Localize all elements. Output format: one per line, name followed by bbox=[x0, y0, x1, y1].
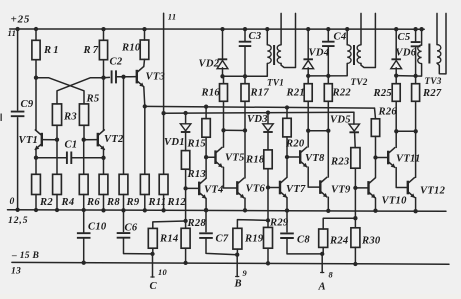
wire VT5 base lead bbox=[206, 156, 215, 158]
junction R15/VT4 collector/VT5 base bbox=[204, 155, 208, 159]
wire R7 bottom bbox=[103, 60, 105, 78]
svg-text:R13: R13 bbox=[187, 169, 207, 180]
wire C3 top bbox=[244, 29, 246, 41]
svg-text:R26: R26 bbox=[378, 107, 398, 118]
svg-text:A: A bbox=[318, 282, 326, 293]
svg-text:C6: C6 bbox=[125, 223, 138, 234]
svg-text:– 15 В: – 15 В bbox=[11, 250, 39, 261]
wire R7 top bbox=[103, 29, 105, 40]
junction VT6 emitter/rail0 bbox=[243, 208, 247, 212]
wire VT12 collector up bbox=[415, 131, 417, 177]
wire R22 top bbox=[327, 76, 329, 84]
wire R4 bottom bbox=[56, 195, 58, 211]
svg-text:11: 11 bbox=[8, 28, 17, 38]
wire R1 top bbox=[35, 29, 37, 40]
svg-text:C10: C10 bbox=[88, 222, 107, 233]
svg-text:R7: R7 bbox=[83, 45, 101, 56]
wire VT9 collector up bbox=[327, 131, 329, 177]
resistor R8 bbox=[99, 174, 108, 194]
junction VT2 emitter/R8 bbox=[101, 156, 105, 160]
resistor R26 bbox=[371, 119, 379, 137]
junction R25/VT11 collector bbox=[394, 129, 398, 133]
svg-text:R9: R9 bbox=[126, 197, 140, 208]
svg-text:R18: R18 bbox=[245, 154, 265, 165]
junction VT10 emitter/rail0 bbox=[373, 209, 377, 213]
svg-text:R12: R12 bbox=[167, 197, 187, 208]
svg-text:C2: C2 bbox=[110, 57, 123, 68]
core TV1 bbox=[273, 45, 275, 65]
junction C9/rail0 bbox=[15, 208, 19, 212]
resistor R28 bbox=[181, 228, 190, 248]
wire R23 to VT10 base bbox=[354, 168, 356, 188]
svg-text:C9: C9 bbox=[21, 99, 34, 110]
junction R27/VT12 collector bbox=[414, 129, 418, 133]
junction VD4/primary bus bbox=[306, 74, 310, 78]
wire VT8 emitter to VT9 base bbox=[308, 167, 320, 187]
wire R10 bottom to VT3 collector bbox=[143, 59, 146, 66]
svg-text:R30: R30 bbox=[361, 236, 381, 247]
capacitor C2 bbox=[112, 70, 116, 83]
wire R29 bottom bbox=[267, 248, 269, 263]
svg-text:13: 13 bbox=[11, 266, 21, 277]
resistor R21 bbox=[304, 84, 312, 102]
wire VT9 emitter down bbox=[327, 197, 329, 211]
wire R16 bottom bbox=[223, 101, 225, 130]
node VT4 base bbox=[183, 186, 187, 190]
wire VT4 collector up bbox=[205, 157, 207, 178]
svg-text:+25: +25 bbox=[11, 14, 31, 26]
junction VD4/rail+25 bbox=[306, 27, 310, 31]
wire VD1 top bbox=[185, 113, 187, 124]
transistor VT4 bbox=[198, 182, 200, 196]
junction R15/upper bus bbox=[204, 104, 208, 108]
junction R30/R24 link bbox=[353, 216, 357, 220]
wire C6 to terminal C node bbox=[124, 238, 153, 254]
wire VT2 base lead bbox=[84, 139, 98, 141]
wire R22 bottom bbox=[327, 101, 329, 130]
junction C3/primary bus bbox=[243, 74, 247, 78]
svg-text:R16: R16 bbox=[201, 88, 221, 99]
wire VT7 base down to R29 bbox=[267, 188, 269, 221]
svg-text:R5: R5 bbox=[86, 93, 100, 104]
junction VD6/primary bus ch3 bbox=[394, 73, 398, 77]
wire VT5 emitter to VT6 base bbox=[224, 167, 238, 188]
terminal B tick bbox=[235, 276, 239, 278]
junction net11-stub/lower-bus/R12 bbox=[161, 111, 165, 115]
inductor TV3 primary winding bbox=[418, 45, 422, 64]
wire R12 bottom bbox=[163, 195, 165, 211]
node VT7 base bbox=[266, 185, 270, 189]
svg-text:R1: R1 bbox=[43, 45, 61, 56]
svg-text:C7: C7 bbox=[216, 234, 229, 245]
svg-text:VD6: VD6 bbox=[396, 48, 417, 59]
junction VT7 emitter-C8/rail0 bbox=[285, 208, 289, 212]
svg-text:R24: R24 bbox=[329, 236, 348, 247]
junction R4/rail0 bbox=[55, 208, 59, 212]
diode VD1 bbox=[180, 124, 191, 131]
svg-text:VT8: VT8 bbox=[305, 153, 325, 164]
svg-text:R4: R4 bbox=[61, 197, 75, 208]
wire VT8 base lead bbox=[287, 156, 300, 158]
wire R25 bottom bbox=[395, 101, 397, 131]
svg-text:VT4: VT4 bbox=[204, 185, 224, 196]
transistor VT5 bbox=[214, 150, 216, 164]
inductor TV2 primary winding bbox=[347, 45, 351, 64]
wire lower mid bus bbox=[164, 111, 354, 114]
wire C6 top bbox=[123, 210, 125, 231]
junction VD2/primary bus bbox=[220, 74, 224, 78]
resistor R20 bbox=[283, 118, 291, 137]
wire collector link ch3 bbox=[396, 130, 415, 132]
wire R17 top bbox=[244, 76, 246, 83]
resistor R3 bbox=[52, 104, 61, 125]
wire VT6 collector up bbox=[244, 130, 246, 178]
wire R10 top bbox=[144, 29, 146, 40]
wire VT10 collector up bbox=[375, 158, 377, 178]
svg-text:B: B bbox=[234, 279, 242, 290]
svg-text:VT3: VT3 bbox=[146, 72, 166, 83]
core TV3 bbox=[428, 44, 430, 64]
inductor TV2 secondary winding bbox=[357, 45, 361, 64]
svg-text:R20: R20 bbox=[285, 139, 305, 150]
wire R5 bottom to VT2 base bbox=[83, 125, 85, 139]
junction VT3 emitter/upper bus/R11 bbox=[143, 104, 147, 108]
junction R28/R14 link bbox=[183, 219, 187, 223]
wire R21 top bbox=[307, 76, 309, 84]
wire C7 to terminal B node bbox=[206, 238, 237, 255]
junction R20/upper bus bbox=[285, 105, 289, 109]
wire R15 to VT5 base bbox=[205, 137, 207, 157]
transistor VT12 bbox=[407, 181, 409, 195]
wire C2 to VT3 base bbox=[116, 76, 130, 78]
capacitor C1 bbox=[67, 152, 71, 165]
junction R14/C6/terminal C bbox=[150, 252, 154, 256]
wire R14 bottom bbox=[152, 248, 154, 254]
wire R28 bottom bbox=[185, 248, 187, 263]
resistor R12 bbox=[159, 174, 168, 194]
resistor R16 bbox=[220, 84, 228, 102]
wire upper mid bus bbox=[145, 106, 375, 108]
junction VD1/lower bus bbox=[183, 111, 187, 115]
svg-text:R19: R19 bbox=[244, 234, 264, 245]
junction R8/rail0 bbox=[101, 208, 105, 212]
svg-text:TV3: TV3 bbox=[425, 76, 442, 86]
inductor TV1 secondary winding bbox=[277, 45, 281, 64]
svg-text:VT9: VT9 bbox=[331, 185, 351, 196]
wire TV1 secondary bottom lead bbox=[281, 13, 295, 67]
wire R26 to VT11 base bbox=[375, 136, 377, 157]
diode VD6 bbox=[391, 58, 401, 60]
wire VT3 emitter to upper bus bbox=[144, 87, 145, 107]
resistor R25 bbox=[392, 84, 400, 102]
wire R20 top bbox=[286, 108, 288, 119]
node VT10 base bbox=[353, 186, 357, 190]
wire TV3 secondary bottom lead bbox=[437, 13, 446, 74]
wire TV3 primary top lead bbox=[421, 29, 423, 45]
scan artifact left edge bbox=[0, 114, 2, 122]
junction R16/VT5 collector bbox=[221, 128, 225, 132]
wire R18 to VT7 base bbox=[267, 169, 269, 188]
resistor R18 bbox=[264, 150, 272, 169]
wire R6 bottom bbox=[83, 195, 85, 211]
wire collector link ch2 bbox=[308, 130, 328, 132]
wire cross VT1-collector to R5 bbox=[36, 78, 84, 104]
svg-text:VT12: VT12 bbox=[420, 186, 446, 197]
wire emitter line left bbox=[36, 157, 67, 159]
resistor R5 bbox=[79, 104, 88, 125]
junction R20/VT7 collector/VT8 base bbox=[285, 155, 289, 159]
wire R20 to VT8 base bbox=[286, 137, 288, 157]
wire VD2 bottom bbox=[222, 68, 224, 77]
transistor VT10 bbox=[367, 181, 369, 195]
junction R28/rail-15 bbox=[183, 261, 187, 265]
inductor TV1 primary winding bbox=[267, 45, 271, 64]
wire VD1 to R13 bbox=[185, 132, 187, 150]
junction C4/primary bus bbox=[326, 74, 330, 78]
svg-text:C5: C5 bbox=[398, 32, 411, 43]
wire R30 bottom bbox=[354, 247, 356, 264]
junction VT4 emitter/rail0 bbox=[204, 208, 208, 212]
wire VT4 emitter down bbox=[205, 199, 207, 211]
wire R19 bottom bbox=[236, 249, 238, 255]
svg-text:R10: R10 bbox=[121, 43, 141, 54]
svg-text:8: 8 bbox=[329, 271, 334, 280]
node VT1 collector bbox=[34, 76, 38, 80]
junction C3/rail+25 bbox=[243, 27, 247, 31]
wire C5 top bbox=[415, 29, 417, 42]
wire VD3 to R18 bbox=[267, 132, 269, 150]
wire R1 bottom bbox=[35, 60, 37, 78]
resistor R19 bbox=[233, 228, 242, 249]
wire VD6 top bbox=[395, 29, 397, 59]
svg-text:C1: C1 bbox=[65, 139, 78, 150]
svg-text:R23: R23 bbox=[330, 157, 350, 168]
transistor VT3 bbox=[136, 70, 138, 84]
transistor VT9 bbox=[319, 180, 321, 194]
junction VT1 emitter/R2 bbox=[34, 156, 38, 160]
junction VD6/rail+25 bbox=[394, 27, 398, 31]
junction R29/rail-15 bbox=[266, 261, 270, 265]
junction VT9 emitter/rail0 bbox=[326, 209, 330, 213]
transistor VT2 bbox=[97, 133, 99, 147]
junction VT2 base/R5/R6 bbox=[82, 138, 86, 142]
wire VT7 emitter down bbox=[286, 198, 288, 211]
wire C7 top bbox=[205, 210, 207, 231]
junction C9/rail+25 bbox=[15, 27, 19, 31]
svg-text:12,5: 12,5 bbox=[8, 215, 28, 226]
svg-text:R8: R8 bbox=[106, 197, 120, 208]
junction R24/C8/terminal A bbox=[320, 252, 324, 256]
svg-text:VT2: VT2 bbox=[104, 134, 124, 145]
wire R2 top bbox=[35, 158, 37, 175]
wire TV3 secondary top lead bbox=[436, 13, 438, 44]
wire terminal C stub bbox=[152, 254, 154, 277]
svg-text:R21: R21 bbox=[286, 88, 305, 99]
wire C9 bottom bbox=[17, 118, 19, 210]
wire R17 bottom bbox=[244, 101, 246, 130]
wire VD5 to R23 bbox=[354, 133, 357, 148]
resistor R10 bbox=[140, 40, 149, 59]
svg-text:R15: R15 bbox=[187, 139, 207, 150]
wire VT3 base lead bbox=[130, 76, 137, 78]
resistor R2 bbox=[32, 174, 41, 194]
wire TV2 secondary top lead bbox=[360, 13, 362, 44]
wire VT4 base down to R28 bbox=[185, 188, 187, 221]
resistor R4 bbox=[53, 174, 62, 194]
wire VT1 base lead bbox=[42, 139, 57, 141]
node VT2 collector bbox=[101, 76, 105, 80]
resistor R7 bbox=[99, 40, 107, 59]
transistor VT7 bbox=[279, 181, 281, 195]
junction C10/rail-15 bbox=[82, 261, 86, 265]
wire R8 top bbox=[103, 158, 105, 175]
wire VT8 collector up bbox=[307, 131, 309, 147]
junction TV3/rail+25 bbox=[419, 27, 423, 31]
resistor R27 bbox=[412, 84, 420, 102]
wire VT5 collector up bbox=[223, 130, 225, 147]
svg-text:10: 10 bbox=[158, 268, 167, 277]
junction R21/VT8 collector bbox=[306, 129, 310, 133]
svg-text:VT1: VT1 bbox=[19, 135, 39, 146]
wire C9 top bbox=[17, 29, 19, 110]
svg-text:VD1: VD1 bbox=[164, 137, 185, 148]
svg-text:VD3: VD3 bbox=[247, 114, 268, 125]
svg-text:C8: C8 bbox=[297, 235, 310, 246]
resistor R29 bbox=[264, 227, 273, 248]
capacitor C8 bbox=[280, 233, 294, 238]
wire R27 bottom bbox=[415, 101, 417, 131]
wire C5 bottom bbox=[415, 47, 417, 76]
junction R17/VT6 collector bbox=[243, 128, 247, 132]
junction R1/rail+25 bbox=[34, 27, 38, 31]
resistor R15 bbox=[202, 119, 210, 138]
junction VT1 base/R3/R4 bbox=[55, 138, 59, 142]
junction R30/rail-15 bbox=[353, 262, 357, 266]
wire R21 bottom bbox=[307, 101, 309, 130]
capacitor C3 bbox=[239, 42, 252, 46]
svg-text:VD2: VD2 bbox=[199, 59, 220, 70]
junction R6/rail0 bbox=[82, 208, 86, 212]
junction R2/rail0 bbox=[34, 208, 38, 212]
wire R15 top bbox=[205, 107, 207, 119]
wire R9 top bbox=[123, 77, 125, 175]
wire R27 top bbox=[415, 75, 417, 83]
wire R11 bottom bbox=[144, 195, 146, 211]
svg-text:VD5: VD5 bbox=[330, 115, 351, 126]
wire R8 bottom bbox=[103, 195, 105, 211]
diode VD2 bbox=[218, 58, 228, 60]
wire R12 top bbox=[163, 113, 165, 174]
svg-text:R11: R11 bbox=[148, 197, 167, 208]
svg-text:11: 11 bbox=[168, 11, 177, 21]
junction VD2/rail+25 bbox=[220, 27, 224, 31]
junction R7/rail+25 bbox=[101, 27, 105, 31]
wire TV2 secondary bottom lead bbox=[361, 13, 375, 67]
svg-text:R6: R6 bbox=[86, 197, 100, 208]
svg-text:R29: R29 bbox=[269, 218, 289, 229]
wire VT10 base down to R30 bbox=[354, 188, 356, 218]
junction R11/rail0 bbox=[143, 208, 147, 212]
wire +25V top rail (net 11) bbox=[10, 28, 424, 30]
wire VD4 top bbox=[307, 29, 309, 59]
wire R13 to VT4 base bbox=[185, 169, 187, 188]
svg-text:VT11: VT11 bbox=[396, 154, 421, 165]
wire R14 top link bbox=[153, 221, 186, 228]
junction VT4 emitter-C7/rail0 bbox=[204, 208, 208, 212]
wire to C2 bbox=[104, 76, 110, 78]
wire R16 top bbox=[223, 76, 225, 83]
wire VT4 base lead bbox=[186, 187, 200, 189]
resistor R11 bbox=[140, 174, 149, 194]
junction R12/rail0 bbox=[161, 208, 165, 212]
wire VD6 bottom bbox=[395, 68, 397, 76]
resistor R14 bbox=[148, 228, 157, 248]
junction R26/VT10 collector/VT11 base bbox=[373, 155, 377, 159]
svg-text:R17: R17 bbox=[250, 88, 270, 99]
wire VT10 emitter down bbox=[375, 198, 377, 211]
wire VT7 base lead bbox=[268, 187, 280, 189]
svg-text:0: 0 bbox=[10, 196, 15, 207]
capacitor C7 bbox=[199, 233, 213, 238]
svg-text:C: C bbox=[150, 281, 158, 292]
wire TV1 secondary top lead bbox=[280, 13, 282, 44]
junction C5/rail+25 bbox=[413, 27, 417, 31]
svg-text:R25: R25 bbox=[373, 88, 393, 99]
junction R29/R19 link bbox=[266, 218, 270, 222]
wire TV2 primary top lead bbox=[346, 29, 348, 45]
wire R19 top link bbox=[237, 220, 268, 229]
svg-text:VD4: VD4 bbox=[309, 48, 330, 59]
capacitor C5 bbox=[411, 42, 421, 46]
diode VD5 bbox=[349, 124, 360, 131]
inductor TV3 secondary winding bbox=[437, 45, 441, 64]
wire C3 bottom bbox=[244, 46, 246, 76]
svg-text:TV1: TV1 bbox=[267, 77, 284, 87]
svg-text:C4: C4 bbox=[334, 32, 347, 43]
wire VD3 top bbox=[267, 113, 269, 124]
resistor R30 bbox=[351, 228, 360, 248]
svg-text:R28: R28 bbox=[187, 218, 207, 229]
wire VT1 collector up bbox=[35, 78, 37, 131]
svg-text:VT7: VT7 bbox=[286, 184, 306, 195]
junction TV2/rail+25 bbox=[345, 27, 349, 31]
wire R30 top bbox=[354, 218, 356, 228]
junction VT7 emitter/rail0 bbox=[285, 208, 289, 212]
junction TV1/rail+25 bbox=[265, 27, 269, 31]
wire VT2 emitter down bbox=[103, 149, 105, 158]
capacitor C6 bbox=[117, 233, 131, 238]
svg-text:VT10: VT10 bbox=[382, 196, 408, 207]
wire R9 bottom bbox=[123, 195, 125, 211]
resistor R23 bbox=[351, 148, 360, 169]
wire C10 top bbox=[83, 210, 85, 233]
wire VT12 emitter down bbox=[415, 198, 417, 212]
junction R19/C7/terminal B bbox=[235, 253, 239, 257]
wire collector link ch1 bbox=[224, 129, 246, 131]
wire emitter line right bbox=[71, 157, 103, 159]
junction C5/primary bus ch3 bbox=[413, 74, 417, 78]
svg-text:R14: R14 bbox=[159, 234, 178, 245]
wire VT11 collector up bbox=[395, 131, 397, 147]
diode VD3 bbox=[263, 124, 274, 131]
wire primary bus ch1 bbox=[223, 63, 268, 76]
wire R11 top bbox=[144, 106, 146, 174]
resistor R17 bbox=[241, 84, 249, 102]
junction R9/rail0 bbox=[121, 208, 125, 212]
wire C4 bottom bbox=[327, 46, 329, 76]
capacitor C9 bbox=[11, 112, 25, 117]
svg-text:9: 9 bbox=[243, 269, 248, 278]
